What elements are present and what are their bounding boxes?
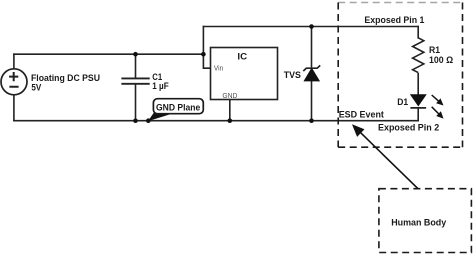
TVS diode xyxy=(284,65,321,81)
node C1 top junction xyxy=(133,52,138,57)
wire junction vertical to Vin xyxy=(203,27,210,69)
LED D1 xyxy=(397,95,443,119)
wire C1 bottom xyxy=(135,84,137,121)
wire PSU vertical bottom xyxy=(13,95,15,121)
node GND plane junction xyxy=(146,118,151,123)
junction dots xyxy=(133,24,314,123)
svg-text:100 Ω: 100 Ω xyxy=(429,55,453,65)
svg-text:GND Plane: GND Plane xyxy=(156,103,200,113)
node C1 bottom junction xyxy=(133,118,138,123)
wire PSU top rail xyxy=(14,53,204,55)
svg-text:1 µF: 1 µF xyxy=(152,81,169,91)
Human Body dashed box xyxy=(379,189,472,253)
wire top rail xyxy=(203,26,418,28)
svg-text:TVS: TVS xyxy=(284,70,301,80)
voltage source V1 Floating DC PSU xyxy=(1,69,27,95)
node TVS bottom junction xyxy=(309,118,314,123)
node Vin junction xyxy=(201,52,206,57)
svg-text:Exposed Pin 1: Exposed Pin 1 xyxy=(364,15,424,25)
wire D1 bottom lead xyxy=(417,108,419,121)
svg-text:GND: GND xyxy=(222,91,237,100)
wire PSU vertical top xyxy=(13,54,15,69)
wire R1 top lead xyxy=(417,27,419,38)
label R1 100 Ohm xyxy=(429,45,453,65)
svg-text:Human Body: Human Body xyxy=(391,218,447,228)
wire bottom rail xyxy=(14,120,418,122)
ESD event arrow xyxy=(352,124,418,188)
wire TVS vertical xyxy=(311,27,313,121)
node IC GND junction xyxy=(228,118,233,123)
GND Plane callout xyxy=(148,99,203,122)
wire C1 top xyxy=(135,54,137,78)
svg-text:Exposed Pin 2: Exposed Pin 2 xyxy=(378,123,439,133)
resistor R1 zigzag xyxy=(413,38,424,73)
label Floating DC PSU 5V xyxy=(31,73,100,93)
label C1 1uF xyxy=(152,72,169,91)
wire R1-D1 link xyxy=(417,74,419,95)
wire IC GND pin xyxy=(229,100,231,121)
svg-text:Floating DC PSU: Floating DC PSU xyxy=(31,73,100,83)
svg-text:5V: 5V xyxy=(31,83,42,93)
ESD dashed box xyxy=(338,3,462,148)
svg-text:IC: IC xyxy=(237,52,247,62)
LED light arrows xyxy=(432,95,439,101)
svg-text:Vin: Vin xyxy=(214,63,223,72)
svg-text:R1: R1 xyxy=(429,45,440,55)
IC U1 box xyxy=(211,48,278,101)
capacitor C1 xyxy=(121,78,149,83)
svg-text:D1: D1 xyxy=(397,97,408,107)
node TVS top junction xyxy=(309,24,314,29)
svg-text:ESD Event: ESD Event xyxy=(339,109,384,119)
